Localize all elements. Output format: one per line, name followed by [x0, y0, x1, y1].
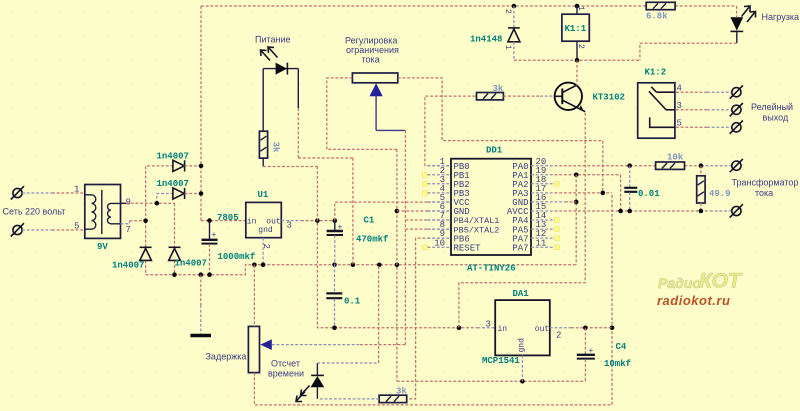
svg-text:времени: времени	[268, 369, 304, 379]
terminal X4	[730, 103, 743, 116]
wire HL3 top to gnd	[317, 265, 378, 363]
svg-text:1n4007: 1n4007	[175, 259, 207, 269]
LED HL2 Нагрузка	[730, 6, 743, 43]
wire VCC pin5	[335, 202, 451, 221]
svg-text:470mkf: 470mkf	[356, 235, 388, 245]
pin 3 U1 out	[281, 221, 335, 231]
label Релейный выход	[751, 102, 793, 123]
regulator U1 7805	[246, 202, 281, 237]
svg-text:C1: C1	[364, 216, 375, 226]
wire +unreg vertical	[200, 6, 202, 221]
svg-text:тока: тока	[755, 188, 773, 198]
svg-text:выход: выход	[763, 113, 789, 123]
wire emitter loop	[459, 112, 585, 328]
potentiometer R2 Регулировка	[352, 73, 397, 83]
node gnd C2	[207, 272, 212, 277]
wire AVCC line	[555, 210, 732, 212]
wire PB0 to R4	[425, 96, 477, 166]
resistor R7 10k	[656, 162, 685, 169]
node AC1 D2	[155, 201, 160, 206]
wire PA3 line	[555, 192, 613, 194]
svg-text:1: 1	[503, 45, 512, 50]
watermark Радио КОТ	[658, 270, 743, 293]
terminal X2 (Сеть 220 вольт, нижний)	[11, 223, 24, 236]
label Регулировка ограничения тока	[345, 36, 399, 65]
node PA3 pot	[601, 191, 606, 196]
node +5 feed 0.1	[332, 326, 337, 331]
node PA0 49.9	[699, 163, 704, 168]
svg-text:Питание: Питание	[255, 35, 291, 45]
label Отсчет времени	[268, 359, 304, 379]
node gnd DA1	[520, 379, 525, 384]
wire R2 left to gnd net	[327, 78, 397, 149]
svg-text:K1:1: K1:1	[565, 24, 587, 34]
wire K1:2 pin4	[676, 91, 731, 93]
arrows HL1	[261, 47, 278, 61]
wire pin16 tap	[555, 201, 577, 203]
diode VD1 1n4007	[173, 160, 201, 171]
DD1 left pin numbers	[434, 157, 445, 249]
svg-text:2: 2	[576, 44, 585, 49]
wire +5 feed line	[335, 327, 496, 329]
diode VD2 1n4007	[173, 188, 201, 199]
wire +5 riser x317	[317, 167, 334, 328]
DD1 right pin numbers	[536, 157, 547, 249]
wire R3 top to gnd	[253, 265, 255, 327]
resistor R5 3k otschet	[379, 395, 407, 402]
relay contacts K1:2	[638, 83, 675, 138]
svg-text:gnd: gnd	[518, 338, 527, 353]
node rail 1n4148	[512, 4, 517, 9]
svg-text:49.9: 49.9	[709, 189, 731, 199]
node pin6	[395, 209, 400, 214]
wire K1:2 pin5	[676, 126, 731, 128]
wire R2 right to PA3 net	[398, 78, 603, 193]
transistor VT1 КТ3102	[555, 60, 586, 111]
svg-text:2: 2	[556, 330, 561, 340]
svg-text:Задержка: Задержка	[206, 352, 247, 362]
node rail D2	[199, 191, 204, 196]
node PA3 out	[610, 326, 615, 331]
svg-text:U1: U1	[258, 190, 269, 200]
wire +unreg to U1 in	[201, 220, 246, 222]
wire ground stem	[200, 275, 202, 334]
svg-text:K1:2: K1:2	[645, 68, 667, 78]
svg-text:3: 3	[486, 319, 491, 329]
wire HL2 to coil line	[640, 43, 737, 60]
node rail K1:1	[575, 4, 580, 9]
wire PA0 line	[555, 165, 732, 167]
svg-text:1: 1	[576, 6, 585, 11]
svg-text:Релейный: Релейный	[751, 102, 793, 112]
svg-text:0.01: 0.01	[638, 189, 660, 199]
wire AC2 up to D1	[146, 166, 173, 221]
wire gnd low line	[397, 380, 586, 382]
wire DA1 gnd stub	[521, 355, 523, 381]
label Трансформатор тока	[732, 178, 799, 199]
node AVCC 0.01	[627, 209, 632, 214]
wiper R2	[370, 83, 406, 130]
svg-text:3: 3	[287, 221, 292, 231]
terminal X7	[730, 204, 743, 217]
resistor R4 3k base	[477, 93, 504, 100]
svg-text:Отсчет: Отсчет	[271, 359, 300, 369]
svg-text:3k: 3k	[396, 387, 407, 397]
capacitor C4 10mkf	[577, 328, 595, 381]
wire HL1 right to gnd	[298, 69, 353, 265]
svg-text:gnd: gnd	[258, 226, 273, 235]
svg-text:DD1: DD1	[486, 146, 503, 156]
svg-text:Сеть 220 вольт: Сеть 220 вольт	[3, 207, 66, 217]
node collector	[575, 58, 580, 63]
wire R4 to base	[503, 95, 554, 97]
svg-text:Радио: Радио	[658, 275, 701, 291]
svg-text:Регулировка: Регулировка	[345, 36, 397, 46]
svg-text:2: 2	[503, 9, 512, 14]
node C2 in	[207, 218, 212, 223]
terminal X6	[730, 159, 743, 172]
svg-text:6.8k: 6.8k	[646, 12, 668, 22]
svg-text:9: 9	[126, 198, 131, 208]
wire PB6 to R5	[407, 238, 451, 399]
wire gnd16 vertical	[575, 175, 577, 265]
node gnd stem	[199, 272, 204, 277]
svg-text:9V: 9V	[97, 242, 108, 252]
svg-text:КТ3102: КТ3102	[593, 93, 625, 103]
wire сеть низ	[22, 229, 85, 231]
capacitor C5 0.01	[624, 166, 637, 211]
wire coil bottom line	[514, 59, 640, 61]
wire HL1 left down	[262, 69, 264, 132]
open pin markers left 2,3,4,10	[423, 173, 428, 250]
node gnd16	[574, 200, 579, 205]
svg-text:ограничения: ограничения	[346, 45, 399, 55]
terminal X5	[730, 121, 743, 134]
DD1 right pin stubs	[531, 166, 555, 248]
node AVCC PA1	[618, 209, 623, 214]
svg-text:1n4148: 1n4148	[470, 35, 502, 45]
diode VD5 1n4148	[503, 6, 520, 60]
wire R3 bottom to PA3 net	[254, 193, 612, 405]
node +5 C1	[333, 218, 338, 223]
svg-text:DA1: DA1	[513, 289, 530, 299]
svg-text:PA7: PA7	[512, 243, 528, 253]
DD1 left pin names	[454, 162, 500, 253]
terminal X3	[730, 85, 743, 98]
potentiometer R3 Задержка	[248, 326, 259, 372]
node gnd pin6	[395, 263, 400, 268]
svg-text:in: in	[247, 217, 257, 226]
svg-text:3k: 3k	[493, 84, 504, 94]
DD1 left pin stubs	[428, 166, 452, 248]
capacitor C2 1000mkf	[202, 221, 218, 275]
wire pin7 AC2 jog	[121, 221, 146, 224]
node +5 x317	[315, 218, 320, 223]
svg-text:RESET: RESET	[454, 243, 482, 253]
node gnd U1 pin2	[261, 263, 266, 268]
node gnd led right	[351, 263, 356, 268]
LED HL1 Питание	[263, 63, 298, 75]
wire R5 to HL3	[318, 398, 379, 400]
svg-text:0.1: 0.1	[344, 297, 361, 307]
wire DA1 out	[550, 327, 612, 329]
svg-text:1: 1	[74, 185, 79, 195]
chip DD1 box	[451, 159, 531, 255]
wire top rail	[201, 5, 737, 7]
LED HL3 Отсчет времени	[311, 363, 325, 399]
svg-text:+: +	[338, 224, 343, 233]
wire AC2 down through D3	[145, 221, 147, 275]
wire pin8 tap	[405, 228, 451, 230]
svg-text:1000mkf: 1000mkf	[218, 252, 256, 262]
svg-text:out: out	[535, 325, 549, 334]
wire сеть верх	[22, 192, 85, 194]
svg-text:10mkf: 10mkf	[604, 359, 631, 369]
node PA0 0.01	[627, 163, 632, 168]
resistor R6 6.8k	[646, 2, 675, 9]
wire gnd pin6 vertical	[396, 149, 398, 381]
svg-text:1n4007: 1n4007	[157, 179, 189, 189]
wire wiper net vertical	[404, 130, 406, 344]
arrows HL2	[742, 6, 756, 22]
svg-text:1n4007: 1n4007	[112, 261, 144, 271]
resistor R1 3k vertical	[259, 131, 267, 158]
svg-text:7805: 7805	[217, 213, 239, 223]
node AVCC 49.9	[699, 209, 704, 214]
open pin markers right 18,14,13,12,11	[555, 182, 560, 250]
node gnd D4	[172, 272, 177, 277]
svg-text:+: +	[212, 231, 217, 240]
svg-text:10k: 10k	[667, 153, 684, 163]
svg-text:radiokot.ru: radiokot.ru	[657, 293, 730, 308]
arrows HL3	[296, 386, 310, 402]
svg-text:5: 5	[74, 222, 79, 232]
node rail D1	[199, 164, 204, 169]
node AC2	[143, 219, 148, 224]
resistor R8 49.9	[697, 166, 705, 211]
svg-text:2: 2	[261, 244, 271, 249]
chip DA1 box	[495, 300, 550, 355]
svg-text:MCP1541: MCP1541	[482, 356, 520, 366]
wire R1 to +5	[263, 158, 317, 166]
svg-text:11: 11	[536, 239, 547, 249]
wire pin6 tap	[397, 210, 451, 212]
wire AC1 down through D4	[174, 203, 176, 274]
svg-text:Трансформатор: Трансформатор	[732, 178, 799, 188]
wire pin9 AC1	[121, 202, 175, 204]
diode VD4 1n4007	[169, 247, 181, 260]
svg-text:+: +	[589, 347, 594, 356]
svg-text:7: 7	[126, 225, 131, 235]
pin 2 U1 gnd	[261, 238, 271, 265]
terminal X1 (Сеть 220 вольт, верхний)	[11, 186, 24, 199]
DD1 right pin names	[507, 162, 529, 253]
node gnd C1	[332, 263, 337, 268]
svg-text:12: 12	[536, 229, 547, 239]
svg-text:1n4007: 1n4007	[157, 152, 189, 162]
wire K1:2 pin3	[676, 109, 731, 111]
ground	[190, 334, 211, 338]
svg-text:3k: 3k	[271, 142, 281, 153]
capacitor C1 470mkf	[327, 221, 343, 265]
wire pin7 tap	[405, 219, 451, 221]
node out C4	[583, 326, 588, 331]
wiper R3	[260, 339, 405, 350]
svg-text:Нагрузка: Нагрузка	[762, 12, 799, 22]
svg-text:in: in	[498, 325, 508, 334]
wire AC1 branch to D2	[157, 194, 173, 204]
capacitor C3 0.1	[326, 265, 342, 328]
transformer T1	[85, 185, 121, 239]
svg-text:тока: тока	[362, 55, 380, 65]
node PA1 gnd	[574, 173, 579, 178]
ground rail lower	[146, 265, 577, 275]
wire PA1 line	[555, 175, 621, 211]
svg-text:C4: C4	[616, 342, 627, 352]
node gnd otschet	[377, 263, 382, 268]
svg-text:AT-TINY26: AT-TINY26	[467, 264, 516, 274]
svg-text:КОТ: КОТ	[699, 270, 743, 293]
node +5 feed riser	[457, 326, 462, 331]
node gnd pot left	[252, 263, 257, 268]
svg-text:9: 9	[440, 229, 445, 239]
diode VD3 1n4007	[140, 247, 152, 260]
svg-text:10: 10	[434, 239, 445, 249]
relay coil K1:1	[562, 6, 589, 60]
